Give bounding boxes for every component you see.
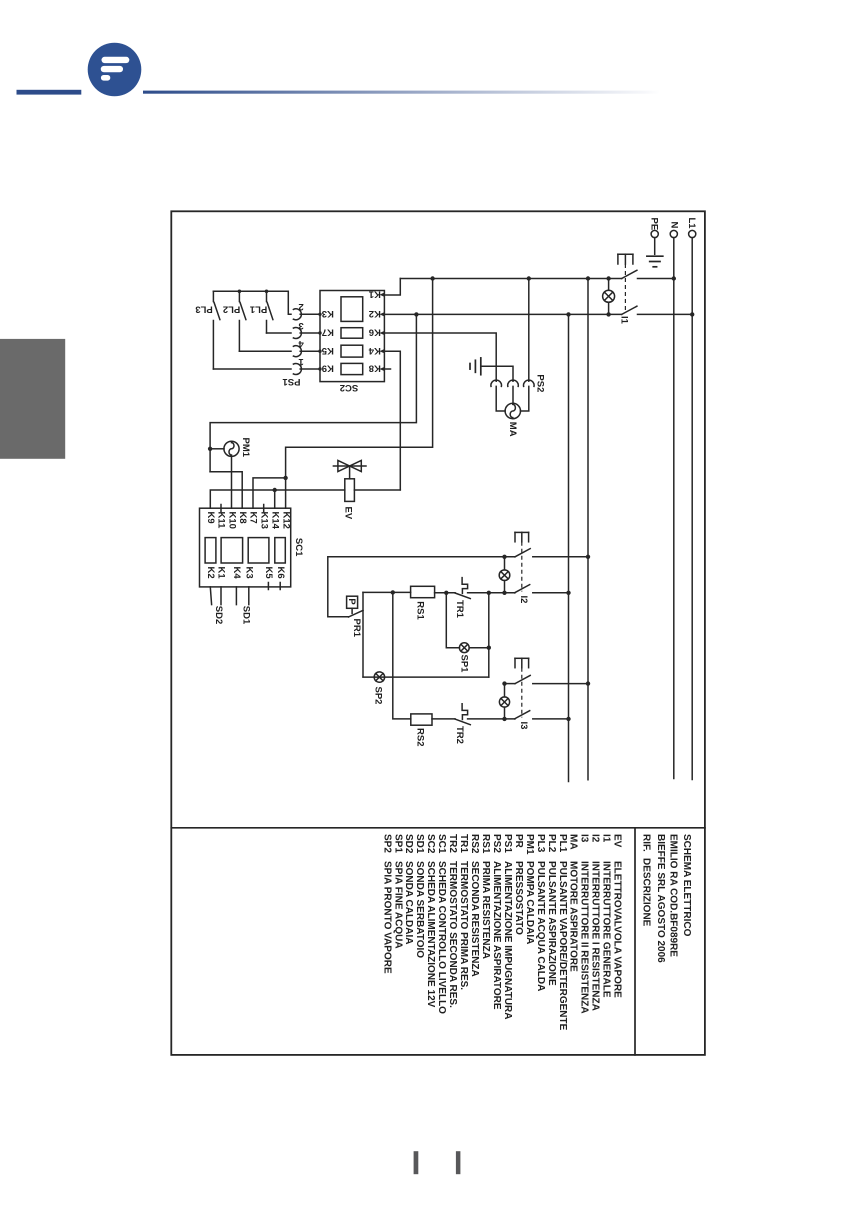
wire SC1.K14 drop <box>274 490 276 508</box>
SC1 relay box 1 <box>205 538 216 563</box>
probe SD1 wires <box>235 587 237 605</box>
switch I3 pole2 blade <box>515 711 530 719</box>
lamp I2 <box>499 557 510 593</box>
logo <box>88 43 142 97</box>
junction I2 lamp bottom <box>502 591 506 595</box>
junction I3 lamp bottom <box>502 717 506 721</box>
wire I3 pole1 out <box>533 683 588 685</box>
probe SD2 wires <box>210 587 211 605</box>
wire I1 pole2 to L1 <box>638 313 693 315</box>
schematic frame <box>171 211 705 1055</box>
svg-text:SC1: SC1 <box>293 538 304 557</box>
svg-text:K9: K9 <box>322 363 334 374</box>
svg-text:N: N <box>669 222 680 229</box>
svg-text:K8: K8 <box>369 363 381 374</box>
wire PR1 node to RS1 <box>363 591 411 593</box>
wire PL top bus <box>213 291 291 314</box>
svg-text:SP1SPIA FINE ACQUA: SP1SPIA FINE ACQUA <box>392 834 403 949</box>
lamp I3 <box>499 684 509 719</box>
SC1 bottom stubs K5 K6 <box>267 583 269 590</box>
valve EV coil <box>345 479 355 502</box>
wire I2 pole2 out <box>533 592 569 594</box>
wire EV left bus <box>210 490 344 508</box>
resistor RS1 <box>411 586 435 597</box>
svg-text:L1: L1 <box>686 218 697 230</box>
switch I1 handle <box>618 254 633 264</box>
wire L1 rail <box>691 238 693 780</box>
svg-text:K2: K2 <box>205 567 216 579</box>
thermostat TR1 element <box>462 578 468 594</box>
svg-text:I2: I2 <box>518 596 529 604</box>
svg-text:TR2TERMOSTATO SECONDA RES.: TR2TERMOSTATO SECONDA RES. <box>447 834 458 1008</box>
wire bus K1 net top <box>400 278 621 280</box>
wire K1 net branch to SC1.K12/K7 <box>286 279 433 509</box>
junction K1 bus dots <box>430 276 434 280</box>
PR1 actuator stub <box>351 608 353 613</box>
legend divider vertical <box>634 828 636 1055</box>
junction I3 lamp top <box>502 681 506 685</box>
svg-text:MA: MA <box>507 422 518 437</box>
svg-text:SC2SCHEDA ALIMENTAZIONE 12V: SC2SCHEDA ALIMENTAZIONE 12V <box>425 834 436 1008</box>
wire PE drop <box>654 238 656 255</box>
junction I3 out rail A <box>586 681 590 685</box>
svg-text:K7: K7 <box>248 512 259 524</box>
connector PS1 contact 2 <box>293 309 301 320</box>
wire PL1 to PS1 pin3 <box>267 332 292 334</box>
svg-text:PL3: PL3 <box>195 303 212 314</box>
wire I3 top row <box>505 683 516 685</box>
svg-text:SC2: SC2 <box>340 382 358 393</box>
connector PS1 contact 1 <box>293 364 301 375</box>
SC1 relay box 3 <box>248 538 269 563</box>
thermostat TR1 blade <box>455 593 470 599</box>
svg-text:PS1ALIMENTAZIONE IMPUGNATURA: PS1ALIMENTAZIONE IMPUGNATURA <box>502 834 513 1020</box>
svg-text:I2INTERRUTTORE I RESISTENZA: I2INTERRUTTORE I RESISTENZA <box>590 834 601 1011</box>
svg-text:K1: K1 <box>216 567 227 580</box>
SC2 relay box 4 <box>341 363 363 374</box>
junction PL2 bus <box>238 290 242 294</box>
wire N rail <box>673 238 675 779</box>
resistor RS2 <box>411 714 432 725</box>
header gradient rule <box>143 91 660 94</box>
wire SP2 row <box>363 676 489 678</box>
wire TR1 net vertical <box>488 593 490 677</box>
wire SC2.K8 stub <box>385 368 391 370</box>
svg-text:RS2: RS2 <box>415 728 426 746</box>
svg-text:K9: K9 <box>205 512 216 524</box>
terminal PE circle <box>651 230 658 237</box>
svg-text:PR1: PR1 <box>351 619 362 638</box>
svg-text:2: 2 <box>298 301 303 312</box>
switch I2 handle <box>515 532 529 541</box>
junction PL1 bus <box>265 290 269 294</box>
svg-text:3: 3 <box>298 320 303 331</box>
thermostat TR2 element <box>462 704 468 720</box>
svg-text:SP1: SP1 <box>458 655 469 674</box>
junction K12/K7 branch <box>283 476 287 480</box>
svg-text:K11: K11 <box>216 512 227 530</box>
wire RS1 to TR1 <box>435 592 455 594</box>
svg-text:P: P <box>346 598 357 605</box>
junction I2 lamp top <box>502 555 506 559</box>
SC1 relay box 4 <box>275 538 286 563</box>
svg-text:1: 1 <box>298 356 304 367</box>
wire PM1 left <box>210 448 224 450</box>
wire bus K2 net <box>385 313 622 315</box>
junction PM1 tap <box>208 447 212 451</box>
svg-text:K3: K3 <box>322 308 334 319</box>
svg-text:K13: K13 <box>258 512 269 529</box>
svg-text:SP2: SP2 <box>373 687 384 705</box>
junction I1 out N <box>672 276 676 280</box>
svg-text:PL1: PL1 <box>249 303 267 314</box>
svg-text:SD2: SD2 <box>213 606 224 624</box>
svg-text:SCHEMA ELETTRICO: SCHEMA ELETTRICO <box>681 834 692 937</box>
connector PS1 contact 4 <box>293 346 301 357</box>
lamp SP1 <box>459 643 469 653</box>
svg-text:RS1: RS1 <box>415 601 426 620</box>
pushbutton PL2 <box>239 291 246 351</box>
wire SC2.K6 to PS2 pin1 <box>385 333 496 381</box>
wire K1 net branch to PS2 pin3 <box>528 279 530 382</box>
svg-text:RS1PRIMA RESISTENZA: RS1PRIMA RESISTENZA <box>480 834 491 959</box>
wire distribution rail A <box>587 279 589 780</box>
wire PS2 pin2 to MA top <box>512 386 514 403</box>
PR1 blade <box>348 610 363 617</box>
junction I1 out L1 <box>690 312 694 316</box>
junction TR1 right <box>487 591 491 595</box>
svg-text:TR2: TR2 <box>454 726 465 744</box>
svg-text:I3INTERRUTTORE II RESISTENZA: I3INTERRUTTORE II RESISTENZA <box>579 834 590 1014</box>
svg-text:PS2ALIMENTAZIONE ASPIRATORE: PS2ALIMENTAZIONE ASPIRATORE <box>491 834 502 1010</box>
svg-text:K10: K10 <box>226 512 237 529</box>
SC2 relay box 1 <box>341 297 363 322</box>
page footer mark 1 <box>414 1151 419 1174</box>
svg-text:4: 4 <box>298 338 304 349</box>
junction SC1.K14 tap <box>273 488 277 492</box>
wire PS2 pin3 to MA <box>521 386 529 411</box>
svg-text:K8: K8 <box>237 512 248 524</box>
svg-text:BIEFFE SRL AGOSTO 2006: BIEFFE SRL AGOSTO 2006 <box>655 834 666 963</box>
svg-text:PL1PULSANTE VAPORE/DETERGENTE: PL1PULSANTE VAPORE/DETERGENTE <box>557 834 568 1031</box>
left gray tab <box>0 339 65 459</box>
board SC2 <box>320 291 384 382</box>
junction I2 out rail B <box>566 591 570 595</box>
junction RS2 branch <box>391 590 395 594</box>
wire I2 row <box>468 592 515 594</box>
svg-text:K1: K1 <box>368 288 381 299</box>
terminal N circle <box>670 230 677 237</box>
switch I3 linkage dashed <box>521 668 523 718</box>
svg-text:SC1SCHEDA CONTROLLO LIVELLO: SC1SCHEDA CONTROLLO LIVELLO <box>436 834 447 1014</box>
wire I3 row <box>468 718 515 720</box>
wire PS2 pin1 to MA <box>496 386 505 411</box>
svg-text:K5: K5 <box>321 345 334 356</box>
SC2 relay box 3 <box>341 345 363 357</box>
svg-text:PL2: PL2 <box>223 303 240 314</box>
wire I2 feed bus <box>328 557 515 617</box>
pressostat PR1 box <box>347 596 358 608</box>
pump PM1 <box>224 441 239 456</box>
svg-text:K14: K14 <box>269 512 280 530</box>
motor MA <box>505 403 520 418</box>
svg-text:PE: PE <box>648 218 659 231</box>
wire PL2 to PS1 pin4 <box>239 350 291 352</box>
svg-text:PS1: PS1 <box>282 376 301 387</box>
svg-text:PM1POMPA CALDAIA: PM1POMPA CALDAIA <box>524 834 535 944</box>
SC2 left pin dots <box>318 313 321 371</box>
svg-text:TR1: TR1 <box>454 600 465 619</box>
wire SC2.K4 to EV <box>385 351 400 490</box>
junction K2 bus dots <box>414 312 418 316</box>
legend divider horizontal <box>171 827 705 829</box>
wire distribution rail B <box>568 314 570 781</box>
svg-text:EV: EV <box>343 507 354 520</box>
wire PM1 bottom to SC1.K10 <box>231 456 233 508</box>
svg-text:PM1: PM1 <box>240 438 251 458</box>
connector PS2 contact 1 <box>491 380 502 386</box>
wire SC2.K1 to top bus <box>385 279 400 296</box>
switch I2 pole2 blade <box>515 585 530 593</box>
svg-text:K7: K7 <box>322 327 334 338</box>
switch I3 handle <box>515 658 529 667</box>
wire PR1 node vertical <box>362 592 364 677</box>
wire I2 pole1 out <box>533 556 588 558</box>
wires PS1 to SC2 <box>300 314 320 369</box>
SC2 relay box 2 <box>341 328 363 339</box>
svg-text:RIF.DESCRIZIONE: RIF.DESCRIZIONE <box>641 834 652 927</box>
switch I2 pole1 blade <box>515 549 530 557</box>
lamp SP2 <box>374 672 384 682</box>
wire branch to SC1.K7 <box>253 478 286 508</box>
svg-text:K4: K4 <box>231 567 242 580</box>
pushbutton PL1 <box>267 291 273 333</box>
svg-text:K3: K3 <box>243 567 254 579</box>
wire RS2 feed drop <box>393 592 411 719</box>
svg-text:PS2: PS2 <box>534 374 545 392</box>
svg-text:I1: I1 <box>619 316 630 325</box>
wire PL3 to PS1 pin1 <box>213 368 291 370</box>
board SC1 <box>200 508 291 587</box>
wire SP1 right leg <box>469 647 489 649</box>
switch I2 linkage dashed <box>521 542 523 592</box>
lamp I1 <box>603 279 615 315</box>
wire PM1 net to SC1.K8 <box>210 472 242 509</box>
svg-text:K6: K6 <box>369 327 381 338</box>
wire K2 net branch to PM1 net <box>210 314 416 471</box>
svg-text:K4: K4 <box>368 345 381 356</box>
svg-text:SD2SONDA CALDAIA: SD2SONDA CALDAIA <box>403 834 414 945</box>
wire SP1 left leg <box>446 593 459 648</box>
connector PS1 contact 3 <box>293 328 301 339</box>
svg-text:SD1: SD1 <box>240 606 251 625</box>
switch I1 pole 2 blade <box>622 306 637 314</box>
wire earth to PS2 pin2 <box>481 366 513 381</box>
wire I1 pole1 to N <box>638 278 674 280</box>
svg-text:K5: K5 <box>263 567 274 580</box>
header left blue bar <box>17 90 82 95</box>
connector PS2 contact 2 <box>508 380 519 386</box>
ground PE earth symbol <box>647 256 663 267</box>
page footer mark 2 <box>456 1151 461 1174</box>
wire I3 pole2 out <box>533 718 569 720</box>
valve EV body <box>333 460 366 478</box>
junction I2 out rail A <box>586 555 590 559</box>
svg-text:SD1SONDA SERBATOIO: SD1SONDA SERBATOIO <box>414 834 425 958</box>
junction SP1 left <box>444 591 448 595</box>
pushbutton PL3 <box>213 291 220 369</box>
svg-text:EMILIO RA COD.BF089RE: EMILIO RA COD.BF089RE <box>668 834 679 957</box>
thermostat TR2 blade <box>455 719 470 725</box>
SC1 top pin stubs K11 K13 <box>220 505 222 512</box>
junction SP1 right <box>487 646 491 650</box>
connector PS2 contact 3 <box>523 380 534 386</box>
switch I1 linkage dashed <box>624 264 626 313</box>
SC2 right pin arrows <box>380 292 385 371</box>
switch I1 pole 1 blade <box>622 270 637 278</box>
svg-text:K6: K6 <box>275 567 286 579</box>
svg-text:K2: K2 <box>369 308 381 319</box>
ground MA earth symbol <box>470 358 481 375</box>
terminal L1 circle <box>689 230 696 237</box>
switch I3 pole1 blade <box>515 675 530 683</box>
wire RS2 to TR2 <box>432 718 455 720</box>
SC1 relay box 2 <box>221 538 243 563</box>
junction I3 out rail B <box>566 717 570 721</box>
svg-text:I3: I3 <box>518 722 529 730</box>
wire EV right to SC2.K4 net <box>354 489 400 491</box>
svg-text:K12: K12 <box>280 512 291 529</box>
